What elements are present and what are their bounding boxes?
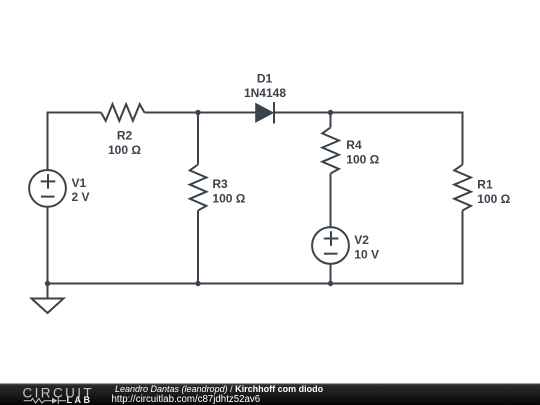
label R1 value — [477, 178, 510, 207]
svg-text:LAB: LAB — [67, 395, 93, 405]
wire top rail node A to diode — [198, 112, 256, 114]
svg-text:http://circuitlab.com/c87jdhtz: http://circuitlab.com/c87jdhtz52av6 — [112, 394, 261, 405]
svg-text:100 Ω: 100 Ω — [212, 191, 245, 205]
wire R3 branch lower — [197, 211, 199, 284]
wire top rail left segment and top-left corner — [48, 113, 102, 171]
footer bar — [0, 384, 540, 405]
svg-text:100 Ω: 100 Ω — [108, 143, 141, 157]
wire top rail between R2 and node A — [144, 112, 198, 114]
svg-text:Leandro Dantas (leandropd) / K: Leandro Dantas (leandropd) / Kirchhoff c… — [115, 384, 324, 394]
resistor R2 — [101, 104, 144, 121]
wire R4 branch upper — [330, 113, 332, 128]
label V1 value — [72, 176, 90, 204]
node B junction dot — [328, 110, 333, 115]
svg-text:D1: D1 — [257, 71, 273, 85]
svg-text:R4: R4 — [346, 138, 362, 152]
wire top rail node B to right corner — [331, 113, 463, 165]
svg-text:2 V: 2 V — [72, 190, 90, 204]
svg-text:100 Ω: 100 Ω — [477, 192, 510, 206]
junction dot bottom node V2 — [328, 281, 333, 286]
wire top rail diode to node B — [274, 112, 331, 114]
resistor R3 — [190, 165, 207, 211]
svg-text:1N4148: 1N4148 — [244, 86, 286, 100]
label R4 value — [346, 138, 379, 166]
label V2 value — [354, 233, 379, 261]
svg-text:R3: R3 — [212, 177, 228, 191]
svg-text:100 Ω: 100 Ω — [346, 152, 379, 166]
node A junction dot — [195, 110, 200, 115]
svg-text:10 V: 10 V — [354, 247, 379, 261]
svg-text:R2: R2 — [117, 129, 133, 143]
voltage source V2 — [312, 227, 349, 264]
resistor R1 — [454, 165, 471, 211]
wire R4 to V2 — [330, 174, 332, 228]
svg-text:V2: V2 — [354, 233, 369, 247]
resistor R4 — [322, 128, 339, 174]
ground — [32, 284, 64, 314]
voltage source V1 — [29, 170, 66, 207]
junction dot bottom left — [45, 281, 50, 286]
junction dot bottom node R3 — [195, 281, 200, 286]
wire V2 branch lower — [330, 264, 332, 284]
label R2 value — [108, 129, 141, 158]
label D1 value — [244, 71, 286, 100]
label R3 value — [212, 177, 245, 205]
svg-text:V1: V1 — [72, 176, 87, 190]
svg-text:R1: R1 — [477, 178, 493, 192]
wire left column lower — [47, 207, 49, 284]
diode D1 — [256, 102, 274, 124]
CircuitLab logo schematic squiggle (resistor + diode) — [24, 398, 66, 404]
wire right column lower and bottom rail — [48, 211, 463, 284]
wire R3 branch upper — [197, 113, 199, 165]
